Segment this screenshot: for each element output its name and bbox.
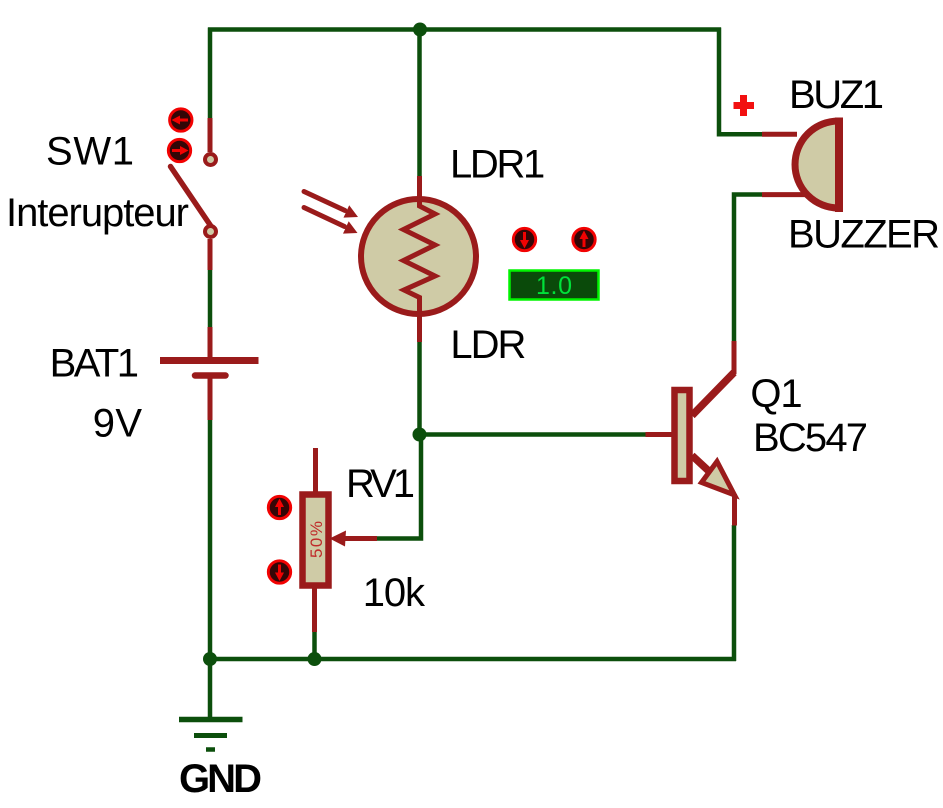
svg-text:LDR1: LDR1 — [450, 143, 545, 187]
potentiometer RV1 — [303, 448, 329, 632]
RV1 decrease button — [268, 561, 290, 583]
wire LDR bottom to node A — [417, 342, 422, 437]
wire left vertical from rail to switch — [208, 28, 213, 119]
RV1 wiper arrow — [330, 531, 378, 547]
wire emitter to bottom rail — [732, 525, 737, 661]
wire RV1 bottom to rail — [312, 631, 317, 661]
junction node RV1 bottom — [308, 652, 322, 666]
wire ground drop — [208, 657, 213, 719]
LDR value display 1.0 — [510, 271, 599, 301]
LDR LDR1 light arrows — [304, 192, 358, 234]
wire top rail — [208, 27, 721, 32]
svg-text:LDR: LDR — [450, 323, 526, 367]
wire node A to transistor base — [420, 432, 646, 437]
svg-text:9V: 9V — [93, 402, 143, 446]
svg-text:BC547: BC547 — [753, 416, 868, 460]
svg-text:50%: 50% — [307, 521, 326, 558]
svg-text:BUZ1: BUZ1 — [789, 73, 884, 117]
svg-text:SW1: SW1 — [46, 130, 134, 174]
transistor Q1 — [646, 341, 735, 526]
svg-text:BUZZER: BUZZER — [788, 213, 940, 257]
svg-text:RV1: RV1 — [346, 462, 415, 506]
battery BAT1 — [160, 327, 259, 420]
LDR decrease button — [513, 228, 535, 250]
LDR increase button — [573, 228, 595, 250]
buzzer BUZ1 — [762, 118, 839, 213]
RV1 increase button — [268, 496, 290, 518]
wire rail to LDR top — [417, 28, 422, 177]
SW1 actuate-right button — [168, 139, 190, 161]
wire buzzer bottom to collector — [734, 195, 762, 342]
junction node A — [413, 428, 427, 442]
junction node bottom left — [203, 652, 217, 666]
svg-text:Q1: Q1 — [750, 372, 802, 416]
svg-text:Interupteur: Interupteur — [6, 191, 189, 235]
switch SW1 — [171, 118, 217, 270]
buzzer plus polarity mark — [734, 95, 755, 116]
SW1 actuate-left button — [170, 109, 192, 131]
svg-text:1.0: 1.0 — [536, 272, 572, 300]
wire bottom rail — [208, 657, 736, 662]
LDR LDR1 body — [361, 176, 476, 342]
wire battery to bottom rail — [208, 420, 213, 661]
svg-text:10k: 10k — [363, 571, 426, 615]
svg-text:BAT1: BAT1 — [50, 341, 139, 385]
svg-text:GND: GND — [179, 757, 262, 801]
wire node A to RV1 wiper — [377, 435, 421, 539]
wire rail to buzzer plus — [719, 28, 762, 135]
ground — [179, 720, 243, 750]
wire switch to battery — [208, 270, 213, 327]
junction node top rail — [413, 23, 427, 37]
